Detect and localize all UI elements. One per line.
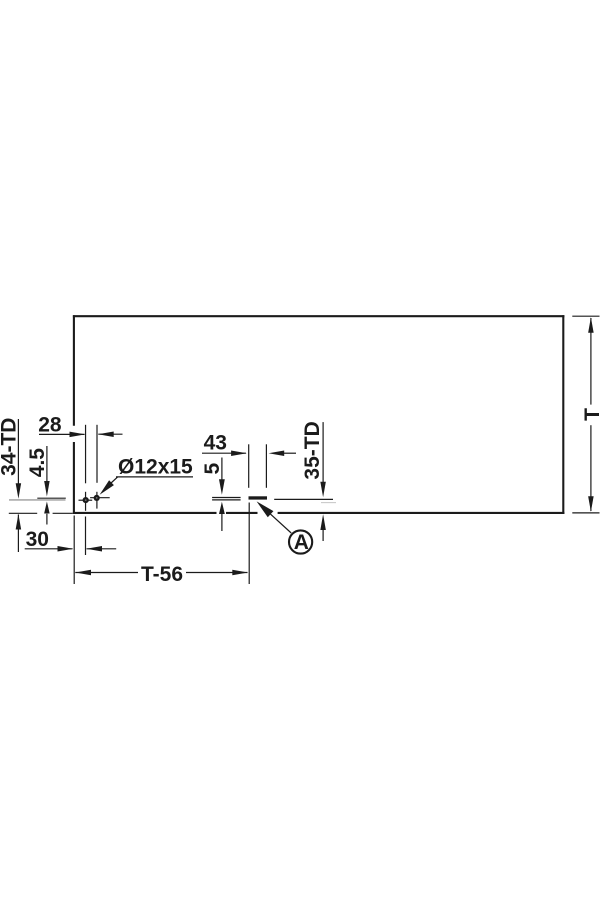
svg-text:35-TD: 35-TD — [301, 421, 324, 479]
dimension 35-TD tail — [322, 530, 324, 541]
panel edge extension down — [73, 516, 75, 585]
dimension T-56 line left — [75, 572, 138, 574]
dimension 4.5 up arrow — [44, 502, 50, 514]
dimension 28 left arrow — [70, 432, 86, 438]
dimension 30 left arrow — [58, 546, 74, 552]
hole 1 drill circle — [83, 497, 89, 503]
dimension 34-TD line — [17, 419, 19, 484]
svg-text:5: 5 — [201, 463, 224, 475]
dimension 34-TD tail — [17, 515, 19, 553]
svg-text:30: 30 — [26, 528, 49, 551]
dimension 43 right tail — [284, 452, 296, 454]
svg-text:43: 43 — [204, 432, 227, 455]
dimension 28 right arrow — [98, 431, 114, 437]
svg-text:4.5: 4.5 — [26, 448, 49, 478]
dimension 30 right arrow — [86, 546, 102, 552]
hole 1 extension down — [85, 517, 87, 556]
panel top edge — [73, 315, 565, 317]
dimension 43 left arrow — [231, 450, 247, 456]
svg-text:34-TD: 34-TD — [0, 418, 20, 476]
dimension 34-TD up arrow — [16, 514, 22, 530]
bottom edge extension left segment 2 — [53, 512, 73, 514]
panel left edge lower segment — [73, 442, 75, 514]
hole line extension right of bar — [274, 498, 333, 500]
fitting bar — [249, 496, 268, 499]
mounting plate edge upper line — [212, 497, 241, 499]
short reference line below — [321, 502, 336, 504]
extension line hole 2 — [96, 425, 98, 483]
dimension T-56 line right — [186, 572, 248, 574]
dimension 35-TD down arrow — [320, 482, 326, 498]
hole line extension left dark gray — [37, 497, 66, 499]
dimension 28 line — [39, 433, 85, 435]
dimension 5 line — [221, 458, 223, 481]
dimension T line lower — [590, 425, 592, 511]
dimension 43 line — [202, 452, 246, 454]
leader Ø12x15 underline — [116, 476, 193, 478]
panel left edge upper segment — [73, 315, 75, 426]
svg-text:28: 28 — [38, 414, 62, 437]
mounting plate edge lower line — [212, 499, 241, 501]
dimension 30 line — [25, 548, 73, 550]
hole 2 drill circle — [94, 495, 100, 501]
dimension T up arrow — [588, 317, 594, 333]
svg-text:A: A — [294, 531, 309, 554]
leader A arrow — [257, 501, 274, 517]
panel right edge — [562, 315, 564, 514]
detail circle A — [289, 530, 312, 553]
leader A line — [270, 513, 292, 533]
dimension T line upper — [590, 318, 592, 405]
dimension 43 ext line right — [265, 444, 267, 488]
dimension 30 right tail — [87, 548, 117, 550]
dimension T down arrow — [588, 496, 594, 512]
bottom edge extension left segment 1 — [9, 512, 37, 514]
dimension T bottom ext line — [572, 512, 599, 514]
hole 1 horizontal centerline — [79, 499, 93, 501]
hole 1 vertical centerline — [85, 492, 87, 511]
dimension 43 ext line left — [248, 444, 250, 488]
dimension T-56 right arrow — [232, 570, 248, 576]
dimension 4.5 tail — [46, 514, 48, 525]
dimension 35-TD line — [322, 422, 324, 482]
panel bottom edge segment 1 — [73, 512, 217, 514]
dimension 35-TD up arrow — [320, 514, 326, 530]
hole line extension left light gray — [9, 499, 66, 501]
leader Ø12x15 line — [111, 477, 118, 484]
dimension 28 right tail — [98, 433, 122, 435]
panel bottom edge segment 2 — [226, 512, 258, 514]
dimension 43 right arrow — [269, 450, 285, 456]
dimension 4.5 line — [46, 446, 48, 482]
hole 2 vertical centerline — [96, 492, 98, 509]
svg-text:T-56: T-56 — [141, 563, 183, 586]
dimension 5 up arrow — [219, 502, 225, 514]
dimension 5 tail — [221, 514, 223, 532]
dimension 34-TD down arrow — [16, 483, 22, 499]
fitting reference ext line down — [248, 503, 250, 585]
svg-text:Ø12x15: Ø12x15 — [118, 455, 193, 478]
dimension 5 down arrow — [219, 479, 225, 494]
extension line hole 1 — [85, 425, 87, 484]
dimension T top ext line — [572, 315, 599, 317]
dimension 4.5 down arrow — [44, 481, 50, 497]
panel bottom edge segment 3 — [278, 512, 565, 514]
dimension T-56 left arrow — [75, 570, 91, 576]
leader Ø12x15 arrow — [100, 480, 114, 495]
svg-text:T: T — [581, 408, 600, 421]
hole 2 horizontal centerline — [90, 497, 110, 499]
